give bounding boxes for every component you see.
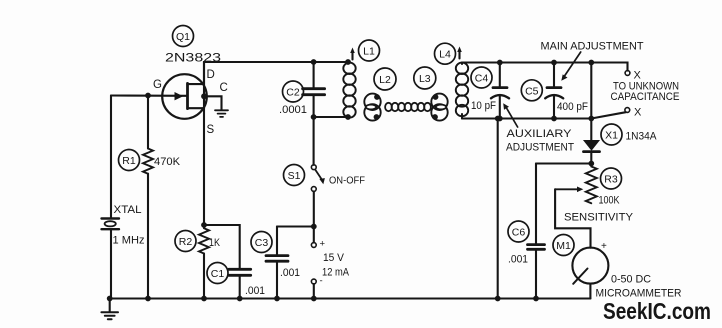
wire junction to C1 branch	[204, 225, 240, 269]
wire L4 side down branch	[497, 119, 499, 299]
label C5	[521, 80, 542, 101]
arrow L4 tuning	[458, 50, 460, 59]
svg-text:+: +	[320, 239, 326, 250]
meter M1	[572, 248, 608, 284]
svg-text:R2: R2	[179, 236, 193, 248]
transistor Q1 circle	[162, 74, 207, 119]
svg-text:G: G	[153, 79, 162, 91]
svg-text:ADJUSTMENT: ADJUSTMENT	[506, 142, 574, 154]
wire slant to lower X terminal	[591, 112, 626, 118]
node right vertical top	[588, 60, 594, 66]
label S1	[284, 165, 305, 186]
node rail dots	[107, 296, 113, 302]
ground main	[109, 299, 111, 312]
svg-text:CAPACITANCE: CAPACITANCE	[611, 91, 680, 103]
svg-text:SENSITIVITY: SENSITIVITY	[564, 212, 634, 224]
svg-text:L2: L2	[379, 74, 391, 86]
wire left vertical upper (gate to crystal)	[110, 96, 112, 219]
label R1	[119, 150, 140, 171]
svg-text:.001: .001	[245, 285, 265, 297]
node L1 bottom	[345, 114, 351, 120]
wire gate lead	[111, 94, 187, 96]
svg-text:L1: L1	[363, 46, 375, 58]
transistor Q1 source stub	[188, 107, 205, 109]
svg-text:MAIN ADJUSTMENT: MAIN ADJUSTMENT	[541, 41, 644, 53]
inductor L1 coil	[343, 63, 355, 74]
diode X1	[584, 141, 599, 151]
svg-text:C6: C6	[512, 227, 526, 239]
svg-text:1K: 1K	[209, 237, 221, 249]
wire C2 bottom to L1 bottom	[314, 116, 348, 118]
terminal X lower	[625, 108, 630, 113]
arrow L1 tuning	[351, 51, 353, 60]
svg-text:SeekIC.com: SeekIC.com	[603, 298, 711, 324]
label M1	[553, 235, 574, 256]
wire right vertical to diode	[590, 63, 592, 141]
wire wiper to meter	[555, 189, 590, 247]
label X1	[601, 124, 622, 145]
capacitor C4 trimmer	[499, 63, 501, 87]
node C2 bottom	[311, 114, 317, 120]
inductor L3 link winding	[431, 94, 447, 110]
wire C6 top link	[536, 162, 591, 164]
terminal battery minus	[311, 279, 316, 284]
wire junction to C3	[277, 225, 314, 227]
transistor Q1 gate arrow	[175, 93, 182, 100]
svg-text:2N3823: 2N3823	[165, 53, 221, 65]
switch S1	[313, 117, 315, 165]
svg-text:C: C	[220, 82, 228, 94]
label C6	[508, 221, 529, 242]
wire tank top rail	[462, 63, 628, 71]
svg-text:C4: C4	[475, 73, 489, 85]
svg-text:R1: R1	[122, 155, 136, 167]
wire case lead	[204, 96, 222, 110]
svg-text:X: X	[634, 107, 642, 119]
svg-text:XTAL: XTAL	[114, 204, 142, 216]
svg-text:S1: S1	[288, 170, 301, 182]
svg-text:L4: L4	[439, 49, 451, 61]
capacitor C3	[276, 227, 278, 255]
svg-text:0-50 DC: 0-50 DC	[611, 274, 651, 286]
wire tank bottom rail	[462, 117, 591, 119]
resistor R1 zigzag	[143, 149, 153, 174]
label L1	[359, 40, 380, 61]
inductor L2 link winding	[364, 94, 380, 110]
label C3	[251, 232, 272, 253]
inductor L4 coil	[456, 63, 468, 74]
svg-text:100K: 100K	[599, 195, 621, 207]
label C2	[283, 81, 304, 102]
capacitor C1	[229, 269, 251, 275]
wire channel vertical through transistor (drain to source)	[203, 62, 205, 225]
svg-text:C1: C1	[211, 268, 225, 280]
wiper arrow R3	[555, 188, 577, 190]
svg-text:ON-OFF: ON-OFF	[329, 175, 365, 187]
terminal battery plus	[313, 227, 315, 243]
svg-text:C5: C5	[525, 85, 539, 97]
resistor R2 zigzag	[199, 225, 209, 254]
svg-text:L3: L3	[419, 73, 431, 85]
label R3	[601, 168, 622, 189]
svg-text:M1: M1	[556, 240, 571, 252]
svg-text:X1: X1	[605, 130, 618, 142]
svg-text:.001: .001	[280, 267, 300, 279]
ground case	[215, 110, 228, 117]
node C2 top	[311, 59, 317, 65]
label C4	[471, 67, 492, 88]
svg-text:+: +	[601, 241, 607, 252]
label L2	[374, 68, 396, 90]
svg-text:1 MHz: 1 MHz	[113, 235, 145, 247]
svg-text:12 mA: 12 mA	[322, 267, 350, 279]
svg-text:15 V: 15 V	[323, 252, 345, 264]
wire left vertical lower (crystal to ground rail)	[110, 229, 112, 298]
capacitor C2	[313, 62, 315, 88]
svg-text:.0001: .0001	[279, 104, 307, 116]
wire top rail drain to L1	[204, 62, 348, 84]
label C1	[207, 263, 228, 284]
svg-text:.001: .001	[508, 254, 528, 266]
label Q1	[173, 26, 194, 47]
transistor Q1 gate bar	[186, 83, 189, 108]
transistor Q1 drain stub	[188, 83, 205, 85]
svg-text:R3: R3	[604, 174, 618, 186]
node battery junction	[311, 224, 317, 230]
capacitor C5 trimmer	[553, 63, 555, 87]
svg-text:400 pF: 400 pF	[557, 101, 588, 113]
node tank bottom right	[588, 116, 594, 122]
svg-text:470K: 470K	[154, 156, 181, 168]
node L1 top	[345, 59, 351, 65]
resistor R3 potentiometer	[586, 164, 597, 204]
node gate junction	[145, 93, 151, 99]
svg-text:C3: C3	[255, 237, 269, 249]
node source-R2 junction	[201, 222, 207, 228]
svg-text:10 pF: 10 pF	[471, 100, 496, 112]
capacitor C6	[528, 245, 545, 250]
arrow auxiliary adjustment	[507, 108, 518, 127]
terminal X upper	[625, 71, 630, 76]
svg-text:D: D	[207, 69, 215, 81]
twisted pair link line	[385, 103, 392, 111]
wire R1 branch bottom	[147, 174, 149, 299]
svg-text:C2: C2	[286, 87, 300, 99]
crystal XTAL	[102, 219, 120, 230]
node diode cathode junction	[588, 161, 594, 167]
svg-text:AUXILIARY: AUXILIARY	[507, 128, 573, 140]
wire R2 bottom	[203, 254, 205, 299]
label L3	[414, 67, 436, 89]
wire bottom ground rail	[110, 297, 591, 299]
svg-text:1N34A: 1N34A	[626, 131, 658, 143]
arrow main adjustment	[565, 52, 581, 76]
svg-text:S: S	[207, 124, 215, 136]
label L4	[435, 43, 456, 64]
node case tap	[201, 93, 207, 99]
svg-text:-: -	[320, 276, 323, 287]
wire R1 branch top	[147, 96, 149, 149]
label R2	[175, 231, 196, 252]
svg-text:Q1: Q1	[176, 31, 190, 43]
